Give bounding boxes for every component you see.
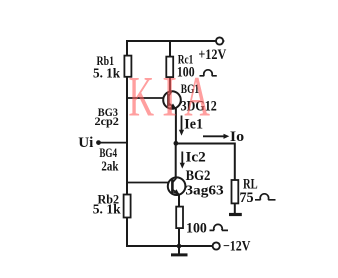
svg-text:2ak: 2ak — [101, 158, 118, 173]
svg-text:Io: Io — [230, 129, 244, 145]
svg-text:5. 1k: 5. 1k — [93, 65, 121, 80]
svg-text:−12V: −12V — [223, 238, 251, 254]
svg-text:A: A — [184, 66, 210, 128]
svg-text:+12V: +12V — [198, 46, 226, 62]
svg-text:5. 1k: 5. 1k — [93, 202, 121, 217]
svg-text:3ag63: 3ag63 — [185, 183, 223, 198]
svg-text:I: I — [162, 66, 177, 129]
svg-text:Ic2: Ic2 — [185, 150, 205, 166]
svg-text:Ui: Ui — [78, 135, 93, 151]
svg-text:100: 100 — [186, 220, 207, 236]
svg-text:K: K — [128, 66, 154, 128]
svg-text:75: 75 — [239, 190, 253, 206]
svg-text:BG2: BG2 — [186, 167, 211, 183]
svg-text:2cp2: 2cp2 — [94, 114, 119, 128]
